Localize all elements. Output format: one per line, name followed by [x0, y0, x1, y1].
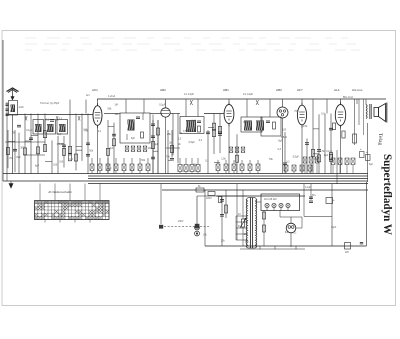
svg-text:100: 100 — [243, 121, 248, 124]
svg-text:0,1µF: 0,1µF — [326, 150, 333, 153]
svg-text:30µF: 30µF — [331, 227, 337, 229]
svg-text:25k: 25k — [221, 241, 226, 243]
svg-text:100: 100 — [59, 160, 64, 163]
svg-text:4,1 A1pF: 4,1 A1pF — [184, 93, 194, 96]
svg-text:0,1µF: 0,1µF — [159, 104, 166, 107]
svg-text:AK1: AK1 — [92, 88, 98, 92]
svg-text:AB1: AB1 — [223, 88, 229, 92]
svg-text:Wat.Lksp.: Wat.Lksp. — [352, 89, 363, 92]
svg-text:25k: 25k — [245, 241, 250, 243]
svg-text:8µF: 8µF — [17, 156, 22, 159]
svg-text:25k: 25k — [203, 234, 208, 236]
svg-text:Ant: Ant — [86, 94, 90, 97]
svg-text:AF7: AF7 — [297, 88, 303, 92]
svg-text:100: 100 — [148, 147, 153, 150]
svg-text:AB2: AB2 — [160, 88, 166, 92]
svg-text:0,5µF: 0,5µF — [189, 141, 196, 144]
svg-text:0,3: 0,3 — [199, 139, 203, 142]
svg-text:8µF: 8µF — [192, 119, 197, 122]
svg-text:8µF: 8µF — [285, 232, 290, 234]
svg-text:BFL.2mA: BFL.2mA — [343, 96, 353, 99]
svg-text:1,5k: 1,5k — [320, 150, 325, 153]
svg-text:8µF: 8µF — [324, 154, 329, 157]
svg-text:0,1: 0,1 — [293, 233, 297, 235]
svg-text:70k: 70k — [269, 158, 274, 161]
svg-text:8µF: 8µF — [278, 140, 283, 143]
svg-text:0,1: 0,1 — [46, 118, 50, 121]
svg-text:25k: 25k — [9, 157, 14, 160]
svg-text:0,5µF: 0,5µF — [57, 143, 64, 146]
svg-text:8µF: 8µF — [35, 165, 40, 168]
svg-text:8µF: 8µF — [369, 164, 374, 166]
svg-text:1,2mA: 1,2mA — [108, 95, 116, 98]
svg-text:AB2: AB2 — [276, 88, 282, 92]
svg-text:220: 220 — [345, 252, 350, 254]
svg-text:AL4: AL4 — [334, 88, 340, 92]
svg-text:0,1µF: 0,1µF — [26, 129, 33, 132]
svg-text:4µF: 4µF — [109, 147, 114, 150]
svg-text:0,3: 0,3 — [286, 161, 290, 164]
svg-text:220V: 220V — [206, 197, 212, 200]
svg-text:0,1µF: 0,1µF — [305, 187, 312, 189]
svg-text:230V: 230V — [178, 221, 184, 223]
svg-text:JF-Wellenschalter: JF-Wellenschalter — [48, 190, 73, 194]
svg-text:+: + — [333, 198, 335, 202]
svg-text:50k: 50k — [141, 159, 146, 162]
svg-text:4µF: 4µF — [107, 167, 112, 170]
svg-text:70k: 70k — [166, 156, 171, 159]
svg-text:2k: 2k — [178, 143, 181, 146]
svg-text:50k: 50k — [89, 149, 94, 152]
svg-text:25k: 25k — [167, 133, 172, 136]
svg-text:1,5k: 1,5k — [221, 158, 226, 161]
svg-text:0,1: 0,1 — [98, 130, 102, 133]
svg-text:300: 300 — [20, 146, 25, 149]
svg-text:+: + — [360, 147, 362, 151]
svg-text:8µF: 8µF — [131, 138, 136, 140]
svg-text:50k: 50k — [108, 108, 113, 111]
svg-text:5k: 5k — [198, 186, 201, 188]
svg-text:0,3: 0,3 — [178, 137, 182, 140]
svg-text:9,1 A1pF: 9,1 A1pF — [243, 93, 253, 96]
svg-text:4V: 4V — [238, 214, 241, 216]
svg-text:Telag: Telag — [377, 133, 383, 145]
svg-text:0,5µF: 0,5µF — [281, 136, 288, 139]
svg-text:110 125 220: 110 125 220 — [264, 199, 277, 201]
svg-text:0,1: 0,1 — [205, 160, 209, 163]
svg-text:100: 100 — [53, 164, 58, 167]
svg-text:0,3: 0,3 — [69, 158, 73, 161]
svg-text:50+: 50+ — [312, 195, 317, 197]
svg-text:1M: 1M — [114, 104, 117, 107]
svg-text:100: 100 — [282, 129, 287, 132]
svg-text:1,5k: 1,5k — [303, 125, 308, 128]
svg-text:1mF: 1mF — [19, 105, 25, 109]
svg-text:0,3: 0,3 — [278, 148, 282, 151]
svg-text:0,5µF: 0,5µF — [293, 155, 300, 158]
svg-text:0,3: 0,3 — [321, 112, 325, 115]
svg-text:50k: 50k — [193, 164, 198, 167]
svg-text:70k: 70k — [12, 131, 17, 134]
svg-text:0,3: 0,3 — [59, 118, 63, 121]
svg-text:8µF: 8µF — [57, 133, 62, 136]
svg-text:Trimmer (1) 45pF: Trimmer (1) 45pF — [40, 102, 60, 105]
svg-text:Supertefladyn W: Supertefladyn W — [381, 154, 395, 235]
